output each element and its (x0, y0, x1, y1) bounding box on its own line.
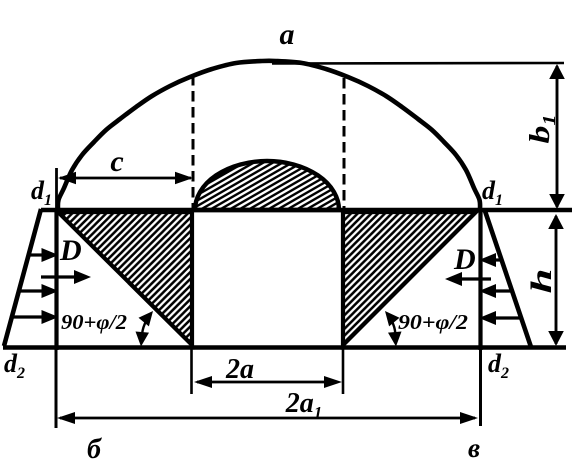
left D force arrow (41, 270, 91, 284)
left dashed vertical (192, 75, 195, 208)
2a extension line left (190, 349, 193, 394)
svg-text:D: D (453, 243, 476, 276)
2a extension line right (342, 349, 345, 394)
dimension h vertical line (548, 214, 564, 346)
svg-text:a: a (280, 18, 295, 51)
hatched left pressure triangle (58, 212, 192, 345)
svg-text:90+φ/2: 90+φ/2 (398, 310, 469, 334)
hatched right pressure triangle (343, 212, 476, 345)
dimension 2a arrow (194, 376, 342, 388)
hatched central dome (195, 161, 339, 210)
right dashed vertical (343, 78, 346, 208)
main horizontal ground line d1-d1 (41, 208, 572, 212)
dimension b1 vertical line (549, 64, 565, 209)
svg-text:h: h (525, 268, 558, 293)
right angle arc arrow 90+phi/2 (385, 311, 402, 347)
right vertical wall line (478, 208, 482, 350)
svg-text:б: б (87, 434, 102, 460)
svg-text:c: c (110, 145, 123, 178)
top tangent reference line (272, 62, 564, 65)
svg-text:в: в (468, 433, 480, 460)
left vertical wall line (55, 168, 58, 208)
bottom floor line d2-d2 (3, 345, 566, 349)
right pressure arrow 1 (479, 253, 503, 267)
left angle arc arrow 90+phi/2 (136, 311, 154, 347)
right pressure arrow 3 (479, 311, 523, 325)
dimension c arrow (58, 172, 193, 184)
svg-text:D: D (59, 234, 82, 267)
right outer slant (pressure envelope) (485, 211, 531, 347)
dimension 2a1 arrow (57, 412, 478, 424)
right pressure arrow 2 (479, 284, 514, 298)
left pressure arrow 2 (18, 284, 59, 298)
svg-text:90+φ/2: 90+φ/2 (61, 310, 128, 334)
big parabolic arch (line a) (58, 61, 480, 210)
left pressure arrow 1 (28, 248, 59, 262)
right D force arrow (445, 272, 491, 286)
left pressure arrow 3 (11, 310, 59, 324)
left outer slant (pressure envelope) (4, 209, 41, 346)
svg-text:2a: 2a (225, 354, 254, 385)
